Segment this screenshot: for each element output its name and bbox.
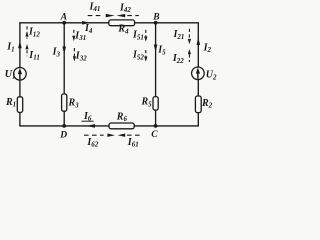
resistor R1 bbox=[17, 97, 22, 113]
svg-text:R3: R3 bbox=[68, 98, 80, 110]
node D bbox=[62, 124, 66, 128]
dashed current I61 line bbox=[127, 134, 142, 136]
current arrow I3 bbox=[62, 47, 66, 55]
dashed current I32 line bbox=[73, 48, 75, 56]
svg-text:A: A bbox=[60, 13, 67, 23]
current arrow I6 bbox=[87, 124, 95, 128]
svg-text:I3: I3 bbox=[52, 47, 61, 59]
source U2 arrow bbox=[196, 67, 200, 78]
svg-text:D: D bbox=[59, 131, 67, 141]
svg-text:I5: I5 bbox=[157, 45, 166, 57]
svg-text:U2: U2 bbox=[206, 70, 217, 82]
resistor R2 bbox=[195, 96, 201, 113]
svg-text:I1: I1 bbox=[6, 42, 14, 54]
dashed current I21 line bbox=[188, 29, 190, 39]
svg-text:I6: I6 bbox=[83, 111, 92, 123]
source U2 bbox=[192, 67, 205, 80]
wire A-D branch bbox=[63, 23, 65, 126]
source U1 bbox=[14, 68, 27, 81]
wire right branch bbox=[197, 23, 199, 126]
dashed current I22 head (up) bbox=[188, 49, 191, 54]
node A bbox=[62, 21, 66, 25]
svg-text:I62: I62 bbox=[86, 137, 98, 149]
source U1 arrow bbox=[18, 68, 22, 79]
svg-text:R2: R2 bbox=[201, 98, 213, 110]
svg-text:I51: I51 bbox=[132, 30, 144, 42]
svg-text:B: B bbox=[152, 13, 159, 23]
dashed current I41 head (right) bbox=[106, 14, 115, 17]
resistor R4 bbox=[109, 20, 135, 26]
resistor R5 bbox=[153, 97, 158, 111]
dashed current I52 line bbox=[145, 50, 147, 56]
svg-text:R6: R6 bbox=[116, 111, 128, 123]
current arrow I2 bbox=[197, 37, 201, 45]
wire top (A-B rail) bbox=[20, 22, 198, 24]
dashed current I11 line bbox=[26, 50, 28, 56]
dashed current I62 line bbox=[84, 134, 104, 136]
svg-text:I42: I42 bbox=[119, 2, 131, 14]
wire B-C branch bbox=[155, 23, 157, 126]
current arrow I5 bbox=[154, 45, 158, 53]
svg-text:I41: I41 bbox=[89, 1, 101, 13]
dashed current I41 line bbox=[88, 15, 102, 17]
dashed current I52 head (down) bbox=[144, 57, 147, 62]
svg-text:R5: R5 bbox=[141, 97, 153, 109]
dashed current I32 head (down) bbox=[73, 56, 76, 61]
wire bottom (D-C rail) bbox=[20, 125, 198, 127]
dashed current I51 head (down) bbox=[144, 36, 147, 41]
svg-text:C: C bbox=[151, 130, 158, 140]
dashed current I31 line bbox=[73, 30, 75, 36]
dashed current I12 head (up) bbox=[25, 31, 28, 36]
svg-text:I12: I12 bbox=[28, 27, 40, 39]
dashed current I12 line bbox=[26, 26, 28, 38]
dashed current I42 line bbox=[127, 15, 139, 17]
svg-text:I22: I22 bbox=[172, 53, 184, 65]
svg-text:R1: R1 bbox=[5, 97, 16, 109]
dashed current I11 head (up) bbox=[25, 44, 28, 49]
dashed current I21 head (down) bbox=[188, 39, 191, 44]
dashed current I42 head (left) bbox=[117, 14, 126, 17]
node B bbox=[154, 21, 158, 25]
node C bbox=[154, 124, 158, 128]
dashed current I61 head (left) bbox=[118, 134, 126, 137]
resistor R3 bbox=[62, 94, 67, 111]
svg-text:I52: I52 bbox=[132, 50, 144, 62]
resistor R6 bbox=[109, 123, 134, 129]
svg-text:I2: I2 bbox=[203, 42, 212, 54]
I6 label underline arrow bbox=[82, 120, 94, 122]
dashed current I51 line bbox=[145, 30, 147, 37]
svg-text:I21: I21 bbox=[173, 29, 185, 41]
dashed current I31 head (down) bbox=[72, 36, 75, 41]
svg-text:I11: I11 bbox=[28, 50, 40, 62]
current arrow I1 bbox=[18, 41, 22, 49]
wire left branch bbox=[19, 23, 21, 126]
dashed current I22 line bbox=[188, 54, 190, 62]
svg-text:I61: I61 bbox=[127, 137, 139, 149]
dashed current I62 head (right) bbox=[107, 134, 115, 137]
current arrow I4 bbox=[82, 21, 90, 25]
svg-text:I32: I32 bbox=[75, 51, 87, 63]
